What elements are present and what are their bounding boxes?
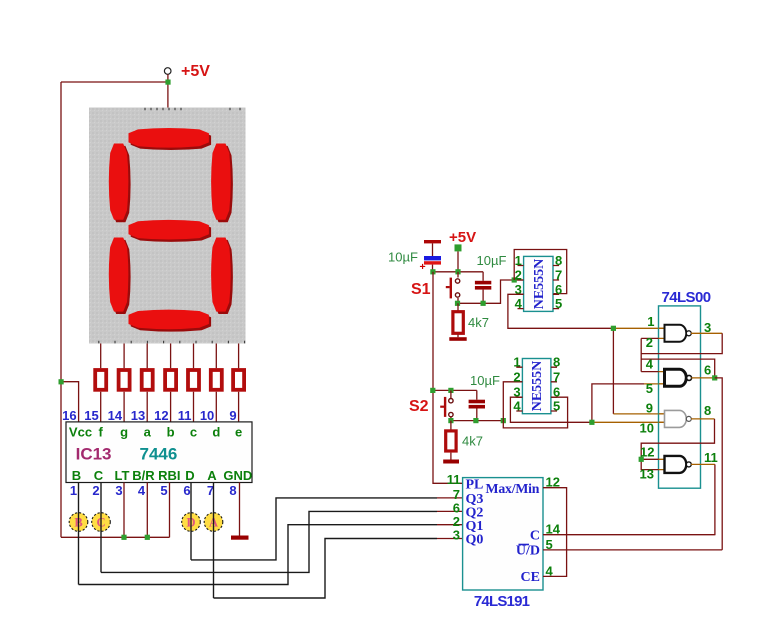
resistor R1 4k7	[449, 303, 466, 341]
wire node down to pin9	[612, 328, 614, 414]
wire pin6 down to U/D	[715, 378, 723, 550]
node junction pins12/13	[639, 457, 644, 462]
wire pin11 down to C	[543, 464, 715, 534]
svg-text:RBI: RBI	[158, 468, 180, 483]
svg-text:IC13: IC13	[76, 445, 112, 464]
svg-text:2: 2	[513, 369, 520, 384]
svg-text:4k7: 4k7	[462, 434, 483, 449]
resistor Ra	[142, 370, 153, 390]
wire hook pin12	[641, 458, 658, 460]
wire +5V down to display	[167, 74, 169, 107]
svg-text:7: 7	[553, 369, 560, 384]
resistor R2 4k7	[443, 421, 459, 464]
svg-text:1: 1	[647, 314, 654, 329]
svg-text:7: 7	[555, 268, 562, 283]
svg-text:15: 15	[84, 408, 98, 423]
svg-text:A: A	[207, 468, 217, 483]
svg-text:3: 3	[453, 528, 460, 543]
U4 right pin names	[516, 528, 540, 585]
resistor Re	[233, 370, 244, 390]
segment g	[129, 220, 209, 240]
wire C stub	[543, 534, 715, 536]
segment b	[211, 144, 231, 220]
U1 pin stubs	[518, 266, 560, 309]
svg-text:D: D	[185, 468, 194, 483]
wire Vcc hook pin16	[61, 382, 79, 422]
svg-text:8: 8	[553, 355, 560, 370]
svg-text:8: 8	[229, 483, 236, 498]
svg-text:GND: GND	[223, 468, 252, 483]
svg-text:6: 6	[183, 483, 190, 498]
wire pin8 to pins12/13	[641, 419, 714, 470]
svg-text:C: C	[530, 528, 540, 543]
svg-text:4: 4	[646, 357, 654, 372]
resistor Rf	[95, 370, 106, 390]
wire node up to pin5	[592, 384, 644, 422]
svg-text:6: 6	[704, 363, 711, 378]
connector B	[69, 513, 88, 532]
wire A to Q0	[214, 539, 438, 599]
wire pin5 RBI down to rail corner	[169, 483, 171, 538]
node junction U1 out	[611, 326, 616, 331]
svg-text:10µF: 10µF	[388, 250, 418, 265]
op-amp U1 NE555N box	[524, 256, 553, 311]
wire tie rail LT/BR/RBI	[61, 536, 170, 538]
svg-text:10: 10	[200, 408, 214, 423]
node junction LT	[121, 535, 126, 540]
svg-text:S1: S1	[411, 281, 431, 298]
node junction S2 switch/rail	[448, 418, 453, 423]
svg-text:10: 10	[640, 421, 654, 436]
ground IC13	[231, 536, 249, 540]
svg-text:11: 11	[178, 408, 192, 423]
wire left vertical rail	[60, 82, 62, 537]
wire pin1 B black down through connector	[78, 483, 80, 585]
wire S1 top rail	[433, 271, 483, 273]
svg-text:U/D: U/D	[516, 544, 540, 559]
svg-text:1: 1	[513, 355, 520, 370]
wire junction bracket to U2 pin6	[503, 397, 567, 428]
node junction rail/C1	[430, 269, 435, 274]
wire B to Q1	[79, 525, 438, 585]
switch S1	[446, 272, 460, 304]
svg-text:Q0: Q0	[466, 533, 484, 548]
op-amp U2 NE555N box	[522, 359, 551, 414]
svg-text:NE555N: NE555N	[530, 361, 545, 412]
svg-text:S2: S2	[409, 398, 429, 415]
capacitor C3 10uF	[469, 390, 485, 420]
wire pin8 GND down	[239, 483, 241, 536]
wire pin3 to pin2/4 hook	[641, 333, 722, 353]
svg-text:9: 9	[646, 401, 653, 416]
svg-text:8: 8	[704, 403, 711, 418]
segment d	[129, 310, 209, 330]
node junction pin2/loop U1	[512, 277, 517, 282]
wire pin3 LT down	[123, 483, 125, 538]
svg-text:16: 16	[62, 408, 76, 423]
U3 74LS00 box	[659, 306, 701, 488]
svg-text:14: 14	[108, 408, 123, 423]
wire pin7 A black down	[213, 483, 215, 599]
svg-text:c: c	[190, 425, 197, 440]
svg-text:+: +	[420, 261, 426, 273]
svg-text:LT: LT	[115, 468, 130, 483]
svg-text:1: 1	[515, 253, 522, 268]
node junction pin6	[712, 375, 717, 380]
svg-text:2: 2	[646, 335, 653, 350]
segment f	[109, 144, 129, 220]
segment a	[129, 128, 209, 148]
wire S2 top rail	[433, 389, 477, 391]
wire loop U1 pin2-pin6	[514, 250, 567, 294]
svg-text:2: 2	[515, 268, 522, 283]
U4 left pin numbers	[447, 472, 461, 543]
gate U3B NAND	[659, 369, 715, 386]
svg-text:13: 13	[131, 408, 145, 423]
svg-text:CE: CE	[521, 570, 540, 585]
svg-text:Vcc: Vcc	[69, 425, 92, 440]
connector D	[182, 513, 201, 532]
svg-text:a: a	[144, 425, 152, 440]
wire pin2 C black down	[100, 483, 102, 573]
node junction U2 out	[589, 420, 594, 425]
svg-text:e: e	[235, 425, 242, 440]
svg-text:5: 5	[553, 399, 560, 414]
svg-text:4: 4	[513, 399, 521, 414]
svg-text:10µF: 10µF	[470, 373, 500, 388]
U4 right pin numbers	[546, 475, 561, 579]
svg-text:+5V: +5V	[449, 229, 476, 246]
svg-text:NE555N: NE555N	[532, 259, 547, 310]
U3 pin numbers	[640, 314, 718, 482]
wire main vertical S1 to S2 to PL	[433, 272, 463, 484]
IC13 bottom pin numbers	[70, 483, 237, 498]
svg-text:f: f	[99, 425, 104, 440]
wire hook vertical	[640, 338, 642, 371]
svg-text:13: 13	[640, 466, 654, 481]
resistor Rb	[165, 370, 176, 390]
IC13 top pin numbers	[62, 408, 236, 423]
resistor Rg	[119, 370, 130, 390]
switch S2	[440, 390, 453, 420]
wire pin4 B/R down	[146, 483, 148, 538]
svg-text:2: 2	[92, 483, 99, 498]
resistor Rc	[188, 370, 199, 390]
svg-text:7446: 7446	[140, 445, 178, 464]
node junction S2 rail/switch	[448, 388, 453, 393]
svg-text:12: 12	[640, 444, 654, 459]
wire hook pin2	[641, 337, 658, 339]
7-segment display body	[89, 108, 246, 344]
gate U3C NAND	[659, 410, 715, 427]
svg-text:4k7: 4k7	[468, 315, 489, 330]
svg-text:g: g	[120, 425, 128, 440]
capacitor C2 10uF	[475, 272, 491, 304]
svg-text:1: 1	[70, 483, 77, 498]
svg-text:5: 5	[646, 381, 653, 396]
wire Max/Min to CE	[543, 488, 567, 577]
svg-text:B/R: B/R	[132, 468, 155, 483]
node junction C3/rail	[473, 418, 478, 423]
wire U1 pin3 output to node	[508, 294, 614, 328]
wire pin6 D black down	[190, 483, 192, 560]
+5V supply terminal S1	[455, 244, 462, 271]
op U4 74LS191 box	[463, 478, 543, 590]
wire U/D stub	[543, 549, 722, 551]
svg-text:10µF: 10µF	[477, 253, 507, 268]
node junction rail/+5V/switch	[455, 269, 460, 274]
node junction C2/rail	[481, 301, 486, 306]
svg-text:74LS00: 74LS00	[662, 289, 711, 306]
wire pin6 to hook	[641, 359, 715, 378]
node junction rail/pin2/pin6 U2	[501, 418, 506, 423]
svg-text:B: B	[72, 468, 81, 483]
svg-text:11: 11	[704, 450, 718, 465]
segment e	[109, 238, 129, 312]
svg-text:11: 11	[447, 472, 461, 487]
svg-text:4: 4	[515, 296, 523, 311]
svg-text:5: 5	[555, 296, 562, 311]
wire S2 bottom rail	[451, 420, 503, 422]
gate U3A NAND	[659, 325, 723, 342]
wire S1 bottom rail	[458, 280, 524, 303]
gate U3D NAND	[659, 456, 715, 473]
svg-text:3: 3	[115, 483, 122, 498]
svg-text:8: 8	[555, 253, 562, 268]
wire D to Q3	[191, 498, 437, 560]
IC13 top pin names	[69, 425, 242, 440]
capacitor C1 10uF electrolytic	[420, 240, 442, 273]
svg-text:5: 5	[160, 483, 167, 498]
svg-text:6: 6	[555, 282, 562, 297]
svg-text:d: d	[212, 425, 220, 440]
connector C	[92, 513, 111, 532]
U4 U-bar overline	[519, 544, 530, 546]
IC13 bottom pin names	[72, 468, 252, 483]
node junction B/R	[145, 535, 150, 540]
wire node to 74LS00 pin1	[613, 327, 664, 329]
U4 left pin names	[466, 478, 484, 548]
display segment shadows	[111, 130, 233, 331]
wire C to Q2	[101, 511, 437, 572]
wire hook pin4	[641, 371, 658, 373]
wire node to 74LS00 pin10	[592, 421, 665, 423]
node junction vertical/S2 rail	[430, 388, 435, 393]
display segments (digit 8, all lit)	[109, 128, 231, 329]
node +5V junction	[165, 80, 170, 85]
node junction switch/rail	[455, 301, 460, 306]
svg-text:3: 3	[704, 320, 711, 335]
resistor Rd	[211, 370, 222, 390]
wire U2 pin3 output to node	[510, 397, 592, 422]
svg-text:4: 4	[138, 483, 146, 498]
svg-text:Max/Min: Max/Min	[486, 481, 540, 496]
svg-text:b: b	[167, 425, 175, 440]
U1 pin numbers	[515, 253, 563, 311]
wires display to resistors	[101, 344, 239, 369]
svg-text:C: C	[94, 468, 104, 483]
svg-text:9: 9	[229, 408, 236, 423]
svg-text:6: 6	[553, 385, 560, 400]
op IC13 7446 box	[66, 422, 252, 483]
svg-text:PL: PL	[466, 478, 484, 493]
connector A	[204, 513, 223, 532]
+5V terminal (display supply)	[164, 68, 171, 75]
wires resistors to IC13	[101, 392, 239, 422]
svg-text:74LS191: 74LS191	[474, 593, 530, 610]
svg-text:+5V: +5V	[181, 63, 210, 80]
U2 pin numbers	[513, 355, 560, 414]
wire +5V rail horizontal to left	[61, 81, 168, 83]
node junction left rail / Vcc	[59, 379, 64, 384]
U2 pin stubs	[516, 367, 557, 411]
svg-text:12: 12	[154, 408, 168, 423]
segment c	[211, 238, 231, 312]
wire junction up to U2 pin2	[503, 382, 522, 421]
